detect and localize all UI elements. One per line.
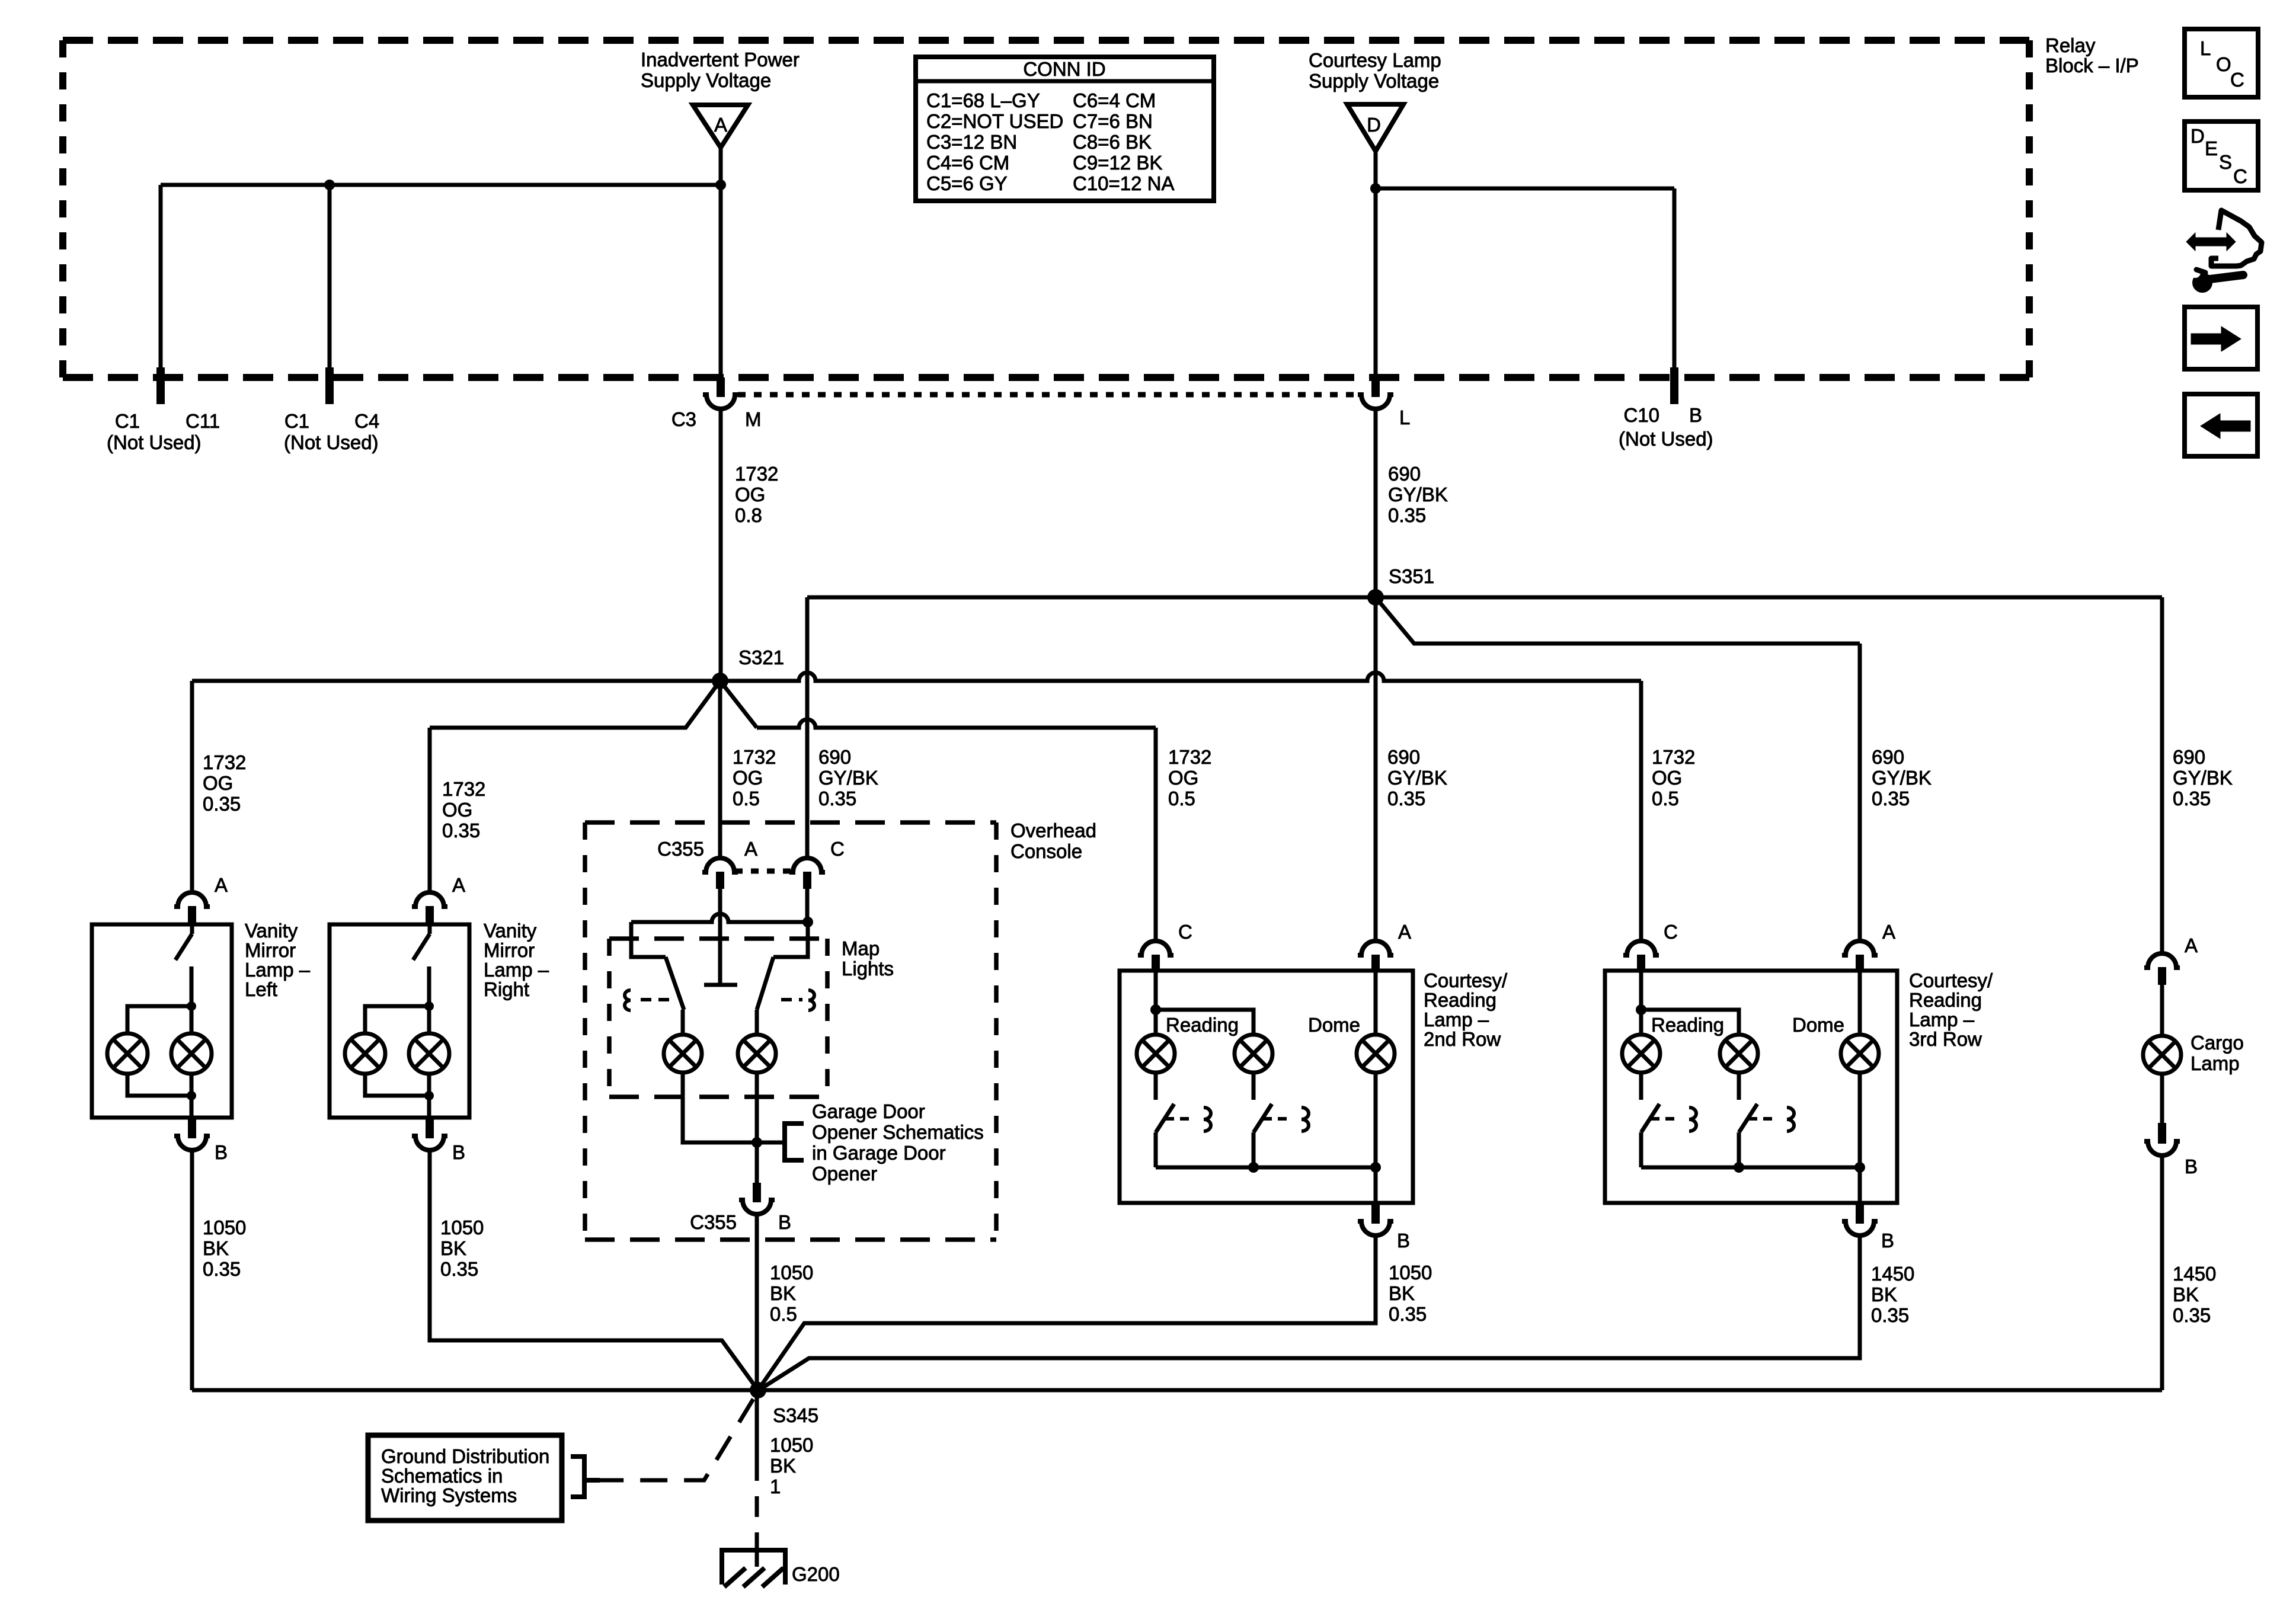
wire horizontal bus inside relay block <box>161 183 721 187</box>
connector A courtesy lamp <box>1842 941 1878 955</box>
icon forward arrow box <box>2185 307 2257 369</box>
svg-text:in Garage Door: in Garage Door <box>812 1142 946 1164</box>
wire 1450 BK 0.35 cargo to ground bus <box>2160 1156 2164 1390</box>
svg-text:GY/BK: GY/BK <box>818 767 878 789</box>
connector B cargo lamp <box>2158 1123 2166 1144</box>
wire 690 GY/BK 0.35 from L to S351 <box>1374 409 1378 597</box>
svg-text:Courtesy/: Courtesy/ <box>1424 969 1508 991</box>
svg-text:0.35: 0.35 <box>1872 788 1910 809</box>
svg-text:Lights: Lights <box>842 958 894 980</box>
power feed triangle A <box>693 105 748 148</box>
switch link glyph 1 <box>1204 1108 1211 1131</box>
svg-text:Mirror: Mirror <box>484 939 535 961</box>
svg-text:1732: 1732 <box>1652 746 1695 768</box>
dome bulb <box>1357 1035 1395 1073</box>
svg-text:C: C <box>2230 69 2244 91</box>
wire 1050 BK 0.35 vanity left to ground bus <box>190 1150 194 1390</box>
icon hand outline <box>2211 210 2262 266</box>
relay block I/P dashed outline <box>63 37 2029 44</box>
connector C courtesy lamp <box>1623 941 1659 955</box>
svg-text:Lamp: Lamp <box>2191 1052 2240 1074</box>
svg-text:C5=6 GY: C5=6 GY <box>926 172 1008 194</box>
wire switch to lamp junction <box>190 966 194 1006</box>
svg-text:B: B <box>778 1211 791 1233</box>
garage door opener reference bracket <box>785 1124 804 1160</box>
wire reading bulb2 to switch <box>1252 1073 1256 1100</box>
node lamp junction bottom <box>424 1091 434 1100</box>
svg-text:A: A <box>714 114 727 136</box>
svg-text:S351: S351 <box>1389 565 1434 587</box>
node reading branch <box>1150 1004 1161 1015</box>
svg-text:0.5: 0.5 <box>770 1303 797 1325</box>
CONN ID table frame <box>916 57 1214 201</box>
map light left link glyph <box>625 990 631 1010</box>
node lamp junction bottom <box>187 1091 196 1100</box>
node bus junction 2 <box>1248 1162 1259 1173</box>
switch link glyph 1 <box>1689 1108 1696 1131</box>
wire to 2nd reading bulb <box>1156 1010 1253 1035</box>
map light left link dashes <box>641 998 671 1001</box>
node junction at C1/C4 drop <box>324 180 335 190</box>
svg-text:A: A <box>215 874 228 896</box>
map light right link dashes <box>781 998 802 1001</box>
connector C355 pin B <box>753 1183 761 1202</box>
svg-text:Courtesy Lamp: Courtesy Lamp <box>1309 49 1441 71</box>
svg-text:B: B <box>1689 404 1702 426</box>
reading bulb 2 <box>1235 1035 1272 1073</box>
connector A of vanity mirror lamp at x=725 <box>412 892 447 907</box>
svg-text:Garage Door: Garage Door <box>812 1100 925 1122</box>
wire S321 right branch to 3rd row C (hops at 1362 and 2321) <box>720 673 1641 681</box>
courtesy lamp box <box>1120 971 1413 1203</box>
svg-text:C: C <box>2233 165 2247 187</box>
icon wrench <box>2192 273 2212 293</box>
right map bulb <box>738 1035 776 1073</box>
svg-text:690: 690 <box>2173 746 2205 768</box>
wire S321 left branch to vanity left <box>192 679 720 683</box>
wire to left bulb <box>127 1006 191 1035</box>
svg-text:Inadvertent Power: Inadvertent Power <box>641 49 800 71</box>
svg-text:C1=68 L–GY: C1=68 L–GY <box>926 89 1040 111</box>
wire dome bulb to B <box>1858 1073 1862 1203</box>
wire right map bulb top <box>755 1010 759 1035</box>
wire D junction to C10 drop <box>1376 187 1674 191</box>
svg-text:Schematics in: Schematics in <box>381 1465 503 1487</box>
svg-text:Relay: Relay <box>2045 34 2096 56</box>
node map light bus junction <box>802 917 813 927</box>
svg-text:D: D <box>2191 125 2205 147</box>
node lamp junction top <box>187 1001 196 1011</box>
svg-text:(Not Used): (Not Used) <box>107 431 202 453</box>
svg-text:Courtesy/: Courtesy/ <box>1909 969 1993 991</box>
svg-text:G200: G200 <box>792 1563 840 1585</box>
svg-text:0.5: 0.5 <box>1652 788 1679 809</box>
svg-text:A: A <box>1398 921 1411 943</box>
svg-text:Cargo: Cargo <box>2191 1032 2244 1054</box>
node bus junction 2 <box>1734 1162 1744 1173</box>
svg-text:1: 1 <box>770 1475 781 1497</box>
svg-text:0.35: 0.35 <box>1387 788 1425 809</box>
wire S351 left branch to overhead console C <box>807 596 1376 600</box>
svg-text:BK: BK <box>203 1237 229 1259</box>
wire cargo connector to bulb <box>2160 985 2164 1036</box>
svg-text:A: A <box>452 874 465 896</box>
svg-text:0.35: 0.35 <box>203 1258 241 1280</box>
wire S351 diagonal branch to 3rd row A <box>1376 597 1860 644</box>
switch blade 1 <box>1156 1104 1174 1132</box>
wire S321 down branch to overhead console A <box>718 681 722 857</box>
svg-text:C: C <box>1664 921 1678 943</box>
svg-text:B: B <box>1881 1230 1894 1251</box>
svg-text:Ground Distribution: Ground Distribution <box>381 1445 549 1467</box>
wire 1050 BK 0.5 to S345 <box>755 1214 759 1390</box>
svg-text:0.5: 0.5 <box>733 788 760 809</box>
connector L stub and cup <box>1371 377 1380 397</box>
svg-text:Reading: Reading <box>1909 989 1982 1011</box>
svg-text:690: 690 <box>1388 463 1421 485</box>
wire 1050 BK 0.35 vanity right to S345 <box>430 1150 758 1390</box>
connector B of vanity mirror lamp <box>188 1118 196 1138</box>
svg-text:A: A <box>744 838 757 860</box>
icon double arrow <box>2186 233 2236 251</box>
svg-text:C11: C11 <box>186 410 220 432</box>
svg-text:BK: BK <box>2173 1283 2199 1305</box>
svg-text:Dome: Dome <box>1308 1014 1360 1036</box>
svg-text:Map: Map <box>842 937 880 959</box>
svg-text:C355: C355 <box>657 838 704 860</box>
svg-text:0.35: 0.35 <box>818 788 856 809</box>
svg-text:1050: 1050 <box>770 1434 813 1456</box>
svg-text:1050: 1050 <box>440 1217 484 1238</box>
right bulb <box>409 1033 449 1074</box>
switch blade 2 <box>1739 1104 1757 1132</box>
wire C10 drop <box>1673 188 1677 377</box>
svg-text:OG: OG <box>442 799 472 821</box>
wire S345 to G200 (dashed) <box>755 1390 759 1481</box>
map light bus with hop over A wire <box>631 914 808 922</box>
map light right switch blade <box>757 957 773 1010</box>
wire C355 A to switch common <box>718 889 722 983</box>
svg-text:S321: S321 <box>738 646 784 668</box>
svg-text:1732: 1732 <box>203 751 246 773</box>
svg-text:1450: 1450 <box>2173 1263 2216 1285</box>
connector A courtesy lamp <box>1358 941 1393 955</box>
svg-text:E: E <box>2205 137 2218 159</box>
wire 1450 BK 0.35 3rd row B to S345 <box>759 1235 1860 1390</box>
svg-text:C6=4 CM: C6=4 CM <box>1073 89 1156 111</box>
svg-text:C9=12 BK: C9=12 BK <box>1073 152 1162 174</box>
svg-text:Mirror: Mirror <box>245 939 296 961</box>
left bulb <box>345 1033 385 1074</box>
switch link glyph 2 <box>1787 1108 1794 1131</box>
svg-text:L: L <box>1399 406 1410 428</box>
svg-text:C2=NOT USED: C2=NOT USED <box>926 110 1063 132</box>
pin stub C1/C4 (not used) <box>325 367 334 404</box>
svg-text:Vanity: Vanity <box>245 920 298 942</box>
connector C3 pin M stub and cup <box>717 377 725 397</box>
connector B courtesy lamp <box>1371 1203 1380 1224</box>
connector A of vanity mirror lamp at x=324 <box>174 892 210 907</box>
wire triangle A down to relay block bottom <box>719 148 723 377</box>
svg-text:0.5: 0.5 <box>1168 788 1195 809</box>
map light left switch leg <box>631 922 666 957</box>
svg-text:Supply Voltage: Supply Voltage <box>641 69 771 91</box>
lamp assembly ground bus <box>1156 1166 1376 1170</box>
svg-text:OG: OG <box>735 484 765 505</box>
connector C355 pin C <box>789 858 825 872</box>
svg-text:S345: S345 <box>773 1404 818 1426</box>
left bulb <box>107 1033 148 1074</box>
courtesy lamp box <box>1605 971 1897 1203</box>
node bus junction A <box>1854 1162 1865 1173</box>
svg-text:Reading: Reading <box>1651 1014 1724 1036</box>
connector B of vanity mirror lamp <box>426 1118 434 1138</box>
dome bulb <box>1841 1035 1879 1073</box>
wire switch2 to bus <box>1737 1132 1741 1167</box>
wire A to dome bulb <box>1374 971 1378 1035</box>
svg-text:BK: BK <box>770 1282 796 1304</box>
svg-text:Opener: Opener <box>812 1163 877 1185</box>
node garage door opener junction <box>752 1137 762 1148</box>
svg-text:0.8: 0.8 <box>735 504 762 526</box>
switch blade 2 <box>1253 1104 1272 1132</box>
wire left map bulb top <box>681 1010 685 1035</box>
wire reading bulb2 to switch <box>1737 1073 1741 1100</box>
connector C355 pin A <box>702 858 738 872</box>
lamp assembly ground bus <box>1641 1166 1860 1170</box>
svg-text:Lamp –: Lamp – <box>245 959 311 981</box>
svg-text:GY/BK: GY/BK <box>2173 767 2233 789</box>
svg-text:Console: Console <box>1011 840 1082 862</box>
node junction at triangle D wire <box>1370 183 1381 194</box>
svg-text:Lamp –: Lamp – <box>1424 1009 1489 1030</box>
icon back arrow box <box>2185 394 2257 456</box>
wire to right bulb <box>190 1006 194 1035</box>
wire C inside <box>1639 971 1643 1035</box>
wire C inside <box>1154 971 1158 1035</box>
wire C1/C11 drop <box>159 185 163 377</box>
svg-text:0.35: 0.35 <box>442 820 480 841</box>
svg-text:C3=12 BN: C3=12 BN <box>926 131 1017 153</box>
connector A cargo lamp <box>2144 953 2180 968</box>
svg-text:B: B <box>2185 1156 2198 1177</box>
cargo lamp bulb <box>2143 1036 2181 1074</box>
connector C courtesy lamp <box>1138 941 1173 955</box>
svg-text:M: M <box>745 408 762 430</box>
right bulb <box>171 1033 212 1074</box>
wire switch to lamp junction <box>427 966 431 1006</box>
svg-text:690: 690 <box>1387 746 1420 768</box>
splice S351 <box>1367 589 1384 606</box>
wire triangle D down <box>1374 151 1378 377</box>
power feed triangle D <box>1347 104 1403 151</box>
switch link dash 2 <box>1748 1117 1777 1121</box>
icon forward arrow <box>2191 327 2241 351</box>
wire C355 C to map light bus <box>805 889 810 922</box>
ground reference dashed leader <box>600 1399 753 1480</box>
wire S321 diagonal to 2nd row C (hop at 1362) <box>720 681 757 728</box>
ground reference bracket <box>571 1457 584 1497</box>
svg-text:0.35: 0.35 <box>440 1258 478 1280</box>
wire cargo bulb to B <box>2160 1074 2164 1123</box>
switch link dash 1 <box>1651 1117 1679 1121</box>
svg-text:0.35: 0.35 <box>2173 788 2211 809</box>
svg-text:C10=12 NA: C10=12 NA <box>1073 172 1175 194</box>
svg-text:Dome: Dome <box>1792 1014 1844 1036</box>
splice S321 <box>712 673 728 689</box>
node bus junction A <box>1370 1162 1381 1173</box>
wire to right bulb <box>427 1006 431 1035</box>
wire left bulb bottom <box>365 1073 429 1096</box>
switch common contact bar <box>704 983 737 987</box>
svg-text:1732: 1732 <box>733 746 776 768</box>
ground bus wire <box>192 1388 2162 1393</box>
svg-text:B: B <box>452 1141 465 1163</box>
vanity mirror lamp box <box>330 924 469 1118</box>
svg-text:Reading: Reading <box>1424 989 1496 1011</box>
wire to 2nd reading bulb <box>1641 1010 1739 1035</box>
svg-text:Left: Left <box>245 978 277 1000</box>
svg-text:A: A <box>1882 921 1895 943</box>
svg-text:O: O <box>2216 53 2231 75</box>
svg-text:Block – I/P: Block – I/P <box>2045 55 2139 76</box>
wire switch1 to bus <box>1154 1132 1158 1167</box>
svg-text:OG: OG <box>203 772 233 794</box>
svg-text:1050: 1050 <box>770 1262 813 1283</box>
svg-text:S: S <box>2219 151 2232 173</box>
node reading branch <box>1636 1004 1646 1015</box>
connector interface dotted line C3 to L <box>738 392 1361 398</box>
svg-text:C: C <box>830 838 845 860</box>
icon LOC box <box>2185 29 2258 97</box>
pin stub C10/B (not used) <box>1670 367 1678 404</box>
svg-text:Right: Right <box>484 978 529 1000</box>
svg-text:A: A <box>2185 934 2198 956</box>
wire dome bulb to B <box>1374 1073 1378 1203</box>
svg-text:0.35: 0.35 <box>203 793 241 815</box>
svg-text:690: 690 <box>1872 746 1904 768</box>
svg-text:OG: OG <box>1652 767 1682 789</box>
switch blade 1 <box>1641 1104 1659 1132</box>
map light right switch leg <box>773 922 808 957</box>
svg-text:690: 690 <box>818 746 851 768</box>
svg-text:1450: 1450 <box>1871 1263 1914 1285</box>
svg-text:BK: BK <box>440 1237 466 1259</box>
ground distribution reference box <box>368 1435 562 1521</box>
wire reading bulb1 to switch <box>1154 1073 1158 1100</box>
svg-text:GY/BK: GY/BK <box>1387 767 1447 789</box>
wire S321 diagonal to vanity right <box>430 681 720 728</box>
wire junction down to C355 B <box>755 1142 759 1183</box>
svg-text:1732: 1732 <box>442 778 485 800</box>
svg-text:B: B <box>215 1141 228 1163</box>
left map bulb <box>664 1035 702 1073</box>
wire reading bulb1 to switch <box>1639 1073 1643 1100</box>
pin stub C1/C11 (not used) <box>156 367 165 404</box>
svg-text:OG: OG <box>733 767 763 789</box>
svg-text:C1: C1 <box>115 410 140 432</box>
svg-text:0.35: 0.35 <box>1388 504 1426 526</box>
wire A to dome bulb <box>1858 971 1862 1035</box>
ground symbol G200 <box>720 1548 788 1553</box>
reading bulb 1 <box>1622 1035 1660 1073</box>
switch link dash 1 <box>1165 1117 1194 1121</box>
wire right bulb to box bottom <box>190 1073 194 1118</box>
map light right link glyph <box>808 990 814 1010</box>
svg-text:1732: 1732 <box>735 463 778 485</box>
svg-text:Lamp –: Lamp – <box>484 959 549 981</box>
switch blade (open) <box>190 924 194 934</box>
connector B courtesy lamp <box>1856 1203 1864 1224</box>
svg-text:2nd Row: 2nd Row <box>1424 1028 1501 1050</box>
vanity mirror lamp box <box>92 924 232 1118</box>
svg-text:L: L <box>2200 37 2211 59</box>
svg-text:CONN ID: CONN ID <box>1023 58 1105 80</box>
reading bulb 1 <box>1137 1035 1175 1073</box>
wire 1050 BK 0.35 2nd row B to S345 <box>758 1235 1376 1390</box>
svg-text:C4=6 CM: C4=6 CM <box>926 152 1009 174</box>
svg-text:(Not Used): (Not Used) <box>284 431 379 453</box>
overhead console dashed box <box>585 820 996 825</box>
svg-text:Opener Schematics: Opener Schematics <box>812 1121 984 1143</box>
map light left switch blade <box>666 957 684 1010</box>
wire S351 down branch to 2nd row A <box>1374 597 1378 940</box>
svg-text:OG: OG <box>1168 767 1198 789</box>
node lamp junction top <box>424 1001 434 1011</box>
wire right map bulb down <box>755 1073 759 1142</box>
svg-text:BK: BK <box>1389 1282 1415 1304</box>
svg-text:Reading: Reading <box>1166 1014 1239 1036</box>
svg-text:1050: 1050 <box>203 1217 246 1238</box>
switch blade (open) <box>428 924 432 934</box>
svg-text:Lamp –: Lamp – <box>1909 1009 1975 1030</box>
svg-text:Vanity: Vanity <box>484 920 537 942</box>
svg-text:C3: C3 <box>671 408 696 430</box>
svg-text:1050: 1050 <box>1389 1262 1432 1283</box>
wire junction to garage door opener bracket <box>757 1141 785 1145</box>
svg-text:0.35: 0.35 <box>1389 1303 1427 1325</box>
wire left bulb bottom <box>127 1073 191 1096</box>
svg-text:D: D <box>1367 114 1381 136</box>
svg-text:C8=6 BK: C8=6 BK <box>1073 131 1152 153</box>
splice S345 <box>750 1382 766 1398</box>
svg-text:0.35: 0.35 <box>1871 1304 1909 1326</box>
svg-text:BK: BK <box>1871 1283 1897 1305</box>
CONN ID table header divider <box>916 79 1214 84</box>
wire switch2 to bus <box>1252 1132 1256 1167</box>
switch link dash 2 <box>1263 1117 1291 1121</box>
svg-text:BK: BK <box>770 1455 796 1477</box>
svg-text:Overhead: Overhead <box>1011 820 1096 841</box>
icon back arrow <box>2201 414 2250 438</box>
svg-text:C355: C355 <box>690 1211 737 1233</box>
wire S351 right branch to cargo lamp <box>1376 596 2162 600</box>
wire 1732 OG 0.8 from C3/M to S321 <box>719 409 723 681</box>
svg-text:C10: C10 <box>1623 404 1659 426</box>
wire C1/C4 drop <box>328 185 332 377</box>
svg-text:(Not Used): (Not Used) <box>1619 428 1713 450</box>
svg-text:Wiring Systems: Wiring Systems <box>381 1484 517 1506</box>
svg-text:C1: C1 <box>284 410 309 432</box>
svg-text:GY/BK: GY/BK <box>1388 484 1448 505</box>
wire to left bulb <box>365 1006 429 1035</box>
reading bulb 2 <box>1720 1035 1758 1073</box>
wire right bulb to box bottom <box>427 1073 431 1118</box>
svg-text:C4: C4 <box>354 410 379 432</box>
svg-text:1732: 1732 <box>1168 746 1211 768</box>
wire switch1 to bus <box>1639 1132 1643 1167</box>
map lights dashed box <box>609 936 827 941</box>
